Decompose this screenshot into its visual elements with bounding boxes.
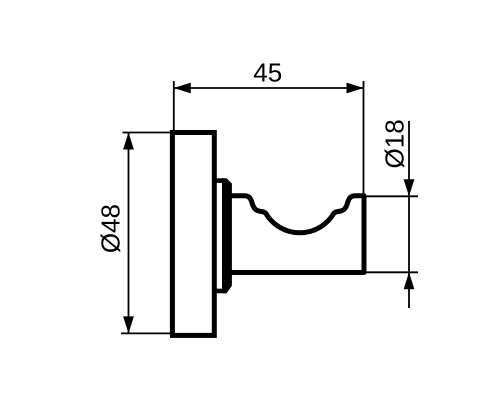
dim O48: bottom extension line [121, 332, 171, 334]
dim O18: bottom extension line [362, 271, 418, 273]
svg-text:45: 45 [253, 58, 282, 88]
wall plate (side view) [172, 133, 214, 336]
flange body [222, 178, 232, 293]
dim 45: right arrowhead [347, 83, 364, 94]
svg-text:Ø48: Ø48 [96, 204, 126, 253]
dim 45: left extension line [173, 81, 175, 130]
hook arm outline [229, 196, 364, 273]
flange top connector line [213, 178, 225, 183]
dim O48: bottom arrowhead [123, 316, 134, 333]
dim O18: top extension line [362, 195, 418, 197]
dim O48: top extension line [123, 132, 172, 134]
dim O48: top arrowhead [123, 133, 134, 150]
dim O48: dimension line [128, 133, 130, 334]
dim 45: left arrowhead [174, 83, 191, 94]
dim O18: bottom arrowhead [404, 272, 415, 289]
svg-text:Ø18: Ø18 [379, 119, 409, 168]
dim 45: right extension line [363, 81, 365, 193]
dim 45: dimension line [174, 87, 364, 89]
dim O18: dimension line [408, 121, 410, 308]
dim O18: top arrowhead [404, 179, 415, 196]
flange bottom connector line [213, 289, 225, 294]
